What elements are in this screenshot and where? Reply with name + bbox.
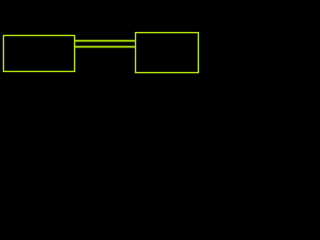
schematic: two blocks joined by a double-line bus: [0, 0, 200, 113]
block U2 (right box): [136, 33, 199, 73]
block U1 (left box): [3, 35, 74, 71]
wire (bus top line): [75, 39, 136, 42]
wire (bus bottom line): [75, 45, 136, 48]
